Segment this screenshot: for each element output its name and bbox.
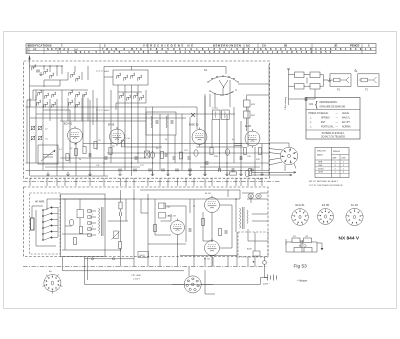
tube socket diagram ECH81 [292, 209, 309, 226]
capacitor [240, 156, 242, 160]
RF coil L6 [38, 90, 42, 96]
svg-text:HF AMPL: HF AMPL [35, 201, 46, 204]
capacitor [175, 169, 179, 171]
measurement table header sub line [332, 154, 350, 156]
junction terminal [112, 258, 114, 260]
wire [147, 178, 149, 186]
ground [46, 172, 50, 176]
capacitor [188, 169, 192, 171]
wire [211, 178, 213, 186]
wire [289, 85, 295, 87]
svg-text:2 Bemerkung: 2 Bemerkung [284, 96, 287, 110]
wire [193, 178, 195, 186]
grid resistor [119, 202, 122, 209]
wire [246, 118, 248, 131]
trimmer C1 [31, 126, 36, 131]
wire [240, 178, 242, 186]
tone network resistor R2 [304, 238, 312, 243]
svg-text:. L: . L [309, 118, 313, 120]
wire [110, 90, 112, 163]
wire [96, 98, 98, 121]
wire [254, 178, 256, 186]
svg-text:2: 2 [335, 162, 337, 164]
wire [247, 107, 249, 147]
wire [254, 147, 256, 176]
fuse [245, 170, 250, 177]
wire [264, 257, 266, 261]
wire [247, 257, 249, 267]
pickup network box P1 [330, 74, 351, 87]
resistor [201, 219, 204, 226]
wire [85, 258, 135, 260]
wire [174, 135, 176, 163]
wire [288, 69, 290, 105]
svg-text:SPRING: SPRING [321, 118, 330, 120]
wire [300, 241, 304, 243]
wire [124, 105, 126, 131]
svg-text:1: 1 [343, 162, 345, 164]
wire [211, 257, 213, 267]
wire [189, 117, 191, 176]
wire [31, 206, 33, 218]
wire [154, 199, 156, 235]
junction [147, 198, 148, 199]
T2 pointer mark [354, 69, 357, 72]
ground [88, 172, 92, 176]
P1 internal resistor [334, 78, 341, 82]
wire [141, 212, 148, 214]
wire [32, 205, 43, 207]
pickup lead wire with arrow [252, 174, 292, 176]
svg-text:EL 84: EL 84 [205, 193, 211, 195]
tube V6 output EL84 [205, 196, 220, 215]
RF coil L2 [44, 69, 48, 75]
wire [43, 80, 45, 87]
junction [211, 240, 212, 241]
crystal detector [191, 113, 195, 117]
wire [26, 106, 198, 108]
wire [235, 199, 237, 232]
tube socket diagram EF89 [318, 209, 334, 225]
wire [107, 152, 269, 154]
svg-text:GWL: GWL [318, 165, 324, 167]
svg-text:50: 50 [70, 148, 73, 150]
resistor [230, 172, 237, 175]
wire [36, 113, 235, 115]
svg-text:EF 89: EF 89 [108, 125, 115, 127]
wire [90, 234, 97, 236]
wire [163, 203, 165, 208]
svg-text:WINDG: WINDG [333, 151, 341, 153]
junction [193, 205, 194, 206]
junction [49, 65, 50, 66]
svg-text:EL 84: EL 84 [245, 126, 252, 128]
wire [294, 164, 296, 169]
svg-text:—: — [336, 122, 339, 124]
svg-text:2k: 2k [79, 159, 81, 161]
wire [286, 251, 294, 253]
wire [75, 143, 77, 176]
tone switch dashed sub-box [30, 193, 61, 254]
resistor [109, 148, 112, 155]
resistor R32 [310, 72, 320, 78]
legend divider 2 [306, 129, 360, 131]
wire [317, 242, 322, 244]
wire [314, 89, 316, 99]
speaker terminal tags [88, 210, 92, 237]
junction [56, 65, 57, 66]
wire [81, 72, 83, 80]
wire [42, 210, 44, 240]
wire [211, 120, 213, 148]
wire [254, 232, 256, 251]
wire [269, 158, 281, 160]
svg-text:C17: C17 [140, 165, 145, 167]
wire [64, 199, 66, 250]
wire [43, 109, 70, 111]
svg-text:EL 84: EL 84 [351, 203, 358, 207]
svg-text:NX 844 V: NX 844 V [339, 235, 360, 241]
capacitor [89, 153, 91, 157]
svg-text:ECC 83: ECC 83 [168, 216, 176, 218]
wire [185, 178, 187, 186]
wire [85, 283, 261, 285]
wire [30, 117, 186, 119]
capacitor [189, 228, 191, 232]
wire [261, 178, 263, 186]
wire [212, 257, 214, 266]
svg-text:Fig 53: Fig 53 [294, 263, 308, 269]
wire [125, 146, 162, 148]
junction [189, 170, 190, 171]
junction [137, 152, 138, 153]
capacitor [135, 156, 137, 160]
wire [57, 207, 59, 237]
junction terminal [91, 258, 93, 260]
wire [103, 67, 105, 126]
junction [110, 143, 111, 144]
wire [79, 218, 81, 226]
ladder input terminal [288, 68, 290, 70]
svg-text:P1: P1 [337, 89, 341, 92]
wire [43, 66, 45, 70]
RF coil L8 [52, 92, 56, 98]
wire [75, 178, 77, 186]
svg-text:C4: C4 [45, 139, 48, 141]
electrolytic block [31, 218, 35, 230]
svg-text:—: — [336, 126, 339, 128]
svg-text:LEGAL: LEGAL [321, 112, 329, 115]
wire [236, 257, 238, 267]
tone network ground arrow [321, 248, 324, 250]
bias resistor [153, 225, 156, 232]
tube V1 ECH81 [68, 126, 83, 145]
svg-text:{: { [315, 100, 318, 109]
wire [227, 190, 229, 197]
oscillator padder coil Lp2 [127, 95, 131, 101]
wire [35, 210, 37, 246]
wire [177, 237, 179, 258]
resistor [94, 142, 97, 149]
wire [63, 270, 185, 272]
svg-text:R9: R9 [156, 148, 159, 150]
volume potentiometer [112, 231, 120, 240]
wire [61, 66, 63, 74]
wire [227, 257, 229, 267]
wire [125, 178, 127, 186]
wire [137, 131, 139, 163]
svg-text:T2: T2 [365, 89, 368, 92]
wire [131, 67, 133, 71]
title table row 3 text [26, 50, 332, 54]
tone switch contact S3e [42, 231, 58, 235]
capacitor [133, 169, 137, 171]
junction [131, 162, 132, 163]
wire [247, 178, 249, 186]
svg-text:ANF: ANF [333, 157, 338, 160]
svg-text:R14: R14 [214, 156, 219, 158]
wire [193, 257, 195, 267]
wire [247, 229, 249, 241]
tube V2 EF89 [110, 127, 125, 146]
chassis shield dashed border (upper block) [24, 61, 270, 178]
wire [152, 131, 154, 176]
P1 internal wire [331, 77, 349, 83]
wire [306, 78, 308, 84]
svg-text:a58.2: a58.2 [104, 110, 110, 112]
svg-text:PERIODENZAHL: PERIODENZAHL [320, 101, 339, 104]
title table row 2 text [26, 47, 372, 51]
wire [92, 90, 94, 125]
junction [219, 152, 220, 153]
capacitor [165, 153, 167, 157]
RF coil L9 [69, 90, 73, 96]
wire [304, 74, 310, 76]
wire [83, 143, 270, 145]
band switch S2 [208, 77, 238, 97]
wire [193, 199, 195, 257]
antenna arrow [28, 56, 30, 60]
svg-text:PRI. OHM: PRI. OHM [132, 275, 141, 277]
tube V3 EABC80 [192, 128, 207, 147]
oscillator padder coil Lp4 [140, 95, 144, 101]
band switch contact dots [207, 75, 238, 95]
output tube socket wiring circle [280, 147, 297, 164]
output stage solid box [61, 194, 106, 257]
wire [204, 96, 206, 176]
wire [62, 121, 64, 170]
wire [82, 95, 84, 147]
wire [312, 251, 317, 253]
measurement table column 2 [339, 155, 341, 178]
RF coil L4 [71, 72, 75, 78]
wire [204, 270, 206, 294]
wire [117, 128, 119, 143]
svg-text:0,1: 0,1 [59, 149, 63, 151]
wire [246, 95, 248, 100]
svg-text:101: 101 [309, 102, 314, 106]
wire [209, 94, 211, 107]
wire [61, 90, 63, 121]
wire [87, 66, 89, 80]
antenna input wire [29, 56, 31, 71]
tube V4 EL84 [245, 129, 260, 148]
tuning capacitor box [38, 145, 58, 164]
wire [137, 105, 139, 131]
wire [133, 189, 135, 257]
svg-text:R21: R21 [251, 104, 256, 106]
bypass box with cross [145, 151, 150, 158]
wire [67, 72, 69, 80]
electrolytic capacitor [69, 219, 73, 226]
resistor R33 [295, 84, 305, 90]
wire [90, 216, 97, 218]
wire [229, 80, 231, 107]
junction [152, 162, 153, 163]
wire [252, 220, 268, 222]
wire [254, 256, 256, 257]
wire [166, 205, 187, 207]
svg-text:GRAVURE DE MARCHE: GRAVURE DE MARCHE [320, 105, 346, 108]
ground [225, 172, 229, 176]
wire [84, 257, 86, 284]
wire [148, 243, 186, 245]
RF coil L11 [83, 92, 87, 98]
wire [46, 199, 48, 210]
wire [269, 142, 289, 144]
svg-text:3: 3 [343, 165, 345, 167]
wire [27, 99, 36, 101]
selenium rectifier [253, 251, 260, 256]
ground [66, 172, 70, 176]
junction [133, 198, 134, 199]
resistor R31 [295, 72, 305, 78]
svg-text:ECH 81: ECH 81 [64, 124, 73, 126]
wire [35, 90, 37, 100]
electrolytic capacitor [225, 149, 229, 156]
tone switch contact S3b [42, 213, 58, 217]
electrolytic capacitor [194, 150, 198, 157]
wire [67, 98, 69, 121]
terminal dot [253, 261, 255, 263]
wire [26, 170, 270, 172]
wire [167, 114, 169, 176]
title table frame [26, 44, 376, 54]
svg-text:—: — [336, 118, 339, 120]
decoupling resistor R22 [244, 111, 251, 118]
wire [45, 166, 140, 168]
wire [145, 107, 147, 121]
svg-text:A3: A3 [33, 47, 37, 51]
RF coil L3 [50, 73, 54, 79]
wire [269, 162, 282, 165]
wire [56, 66, 58, 76]
wire [79, 199, 81, 210]
wire [103, 178, 105, 186]
tube socket diagram EL84 [346, 208, 363, 225]
wire [268, 65, 270, 177]
RF coil L12 [37, 100, 41, 106]
wire [120, 257, 122, 267]
chassis dash-dot line below lower block [23, 265, 267, 267]
wire [120, 216, 122, 242]
wire [60, 157, 146, 159]
resistor [66, 154, 69, 161]
wire [316, 242, 318, 252]
wire [74, 66, 76, 72]
wire [133, 178, 135, 186]
coupling capacitor C40 [159, 203, 166, 209]
wire [180, 255, 237, 257]
T2a coil [214, 112, 217, 118]
wire [320, 74, 324, 76]
title table row line 2 [26, 49, 376, 51]
junction [167, 170, 168, 171]
svg-text:5k: 5k [165, 139, 167, 141]
svg-text:3: 3 [335, 165, 337, 167]
wire [264, 264, 266, 277]
wire [62, 257, 64, 271]
wire [145, 90, 147, 103]
tone network resistor R4 [304, 248, 312, 253]
wire [124, 131, 126, 170]
resistor [83, 147, 86, 154]
oscillator coil Lo2 [124, 75, 128, 81]
svg-text:± 200 V: ± 200 V [133, 278, 141, 280]
wire [236, 232, 238, 257]
wire [120, 190, 122, 202]
wire [159, 131, 161, 170]
wire [260, 278, 262, 285]
wire [90, 222, 97, 224]
wire [30, 175, 108, 177]
wire [46, 178, 48, 186]
wire [47, 198, 121, 200]
legend divider 1 [306, 109, 360, 111]
wire [286, 241, 292, 243]
svg-text:mf bw: mf bw [212, 108, 218, 110]
wire [302, 251, 304, 253]
wire [103, 125, 105, 176]
wire [202, 212, 204, 241]
resistor [118, 242, 121, 249]
wire [60, 120, 146, 122]
wire [204, 257, 206, 267]
svg-text:C11: C11 [96, 165, 100, 167]
resistor [243, 148, 246, 155]
wire [33, 89, 88, 91]
svg-text:EST: EST [321, 122, 326, 124]
wire [155, 234, 171, 236]
wire [26, 162, 270, 164]
wire [233, 107, 235, 163]
resistor [179, 152, 182, 159]
oscillator coil Lo4 [138, 75, 142, 81]
resistor [210, 148, 213, 155]
svg-text:C40: C40 [167, 207, 172, 209]
wire [65, 225, 72, 227]
svg-text:R22: R22 [251, 115, 256, 117]
trimmer C3 [31, 136, 36, 141]
wire [323, 75, 325, 87]
svg-text:END: END [342, 158, 347, 160]
wire [289, 98, 316, 100]
wire [117, 85, 119, 128]
net label a58.1 [96, 70, 103, 72]
svg-text:R50: R50 [300, 246, 303, 248]
capacitor [120, 212, 122, 216]
output transformer to speaker [99, 207, 104, 236]
